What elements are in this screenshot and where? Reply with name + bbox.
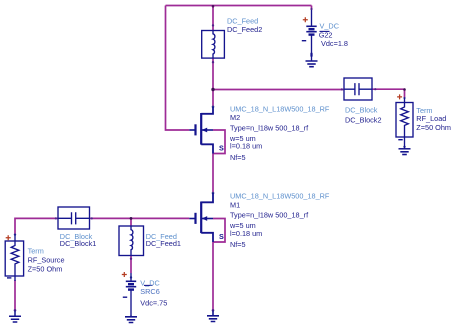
- Term RF_Source bottom pin: [14, 276, 16, 281]
- svg-text:V_DC: V_DC: [320, 22, 339, 31]
- pin dot Term RF_Load top: [403, 97, 405, 99]
- minus sign V_DC G22: [302, 40, 306, 42]
- svg-text:l=0.18 um: l=0.18 um: [230, 142, 262, 151]
- wire top rail: [166, 5, 312, 7]
- Term RF_Load resistor: [401, 103, 409, 138]
- svg-text:DC_Block1: DC_Block1: [60, 239, 97, 248]
- pin dot V_DC G22: [310, 53, 312, 58]
- svg-text:S: S: [219, 144, 224, 153]
- wire drain node to DC_Block2: [213, 89, 344, 91]
- svg-text:Type=n_l18w 500_18_rf: Type=n_l18w 500_18_rf: [230, 211, 309, 220]
- pin dot DC_Block2 right: [374, 88, 376, 90]
- svg-text:DC_Block: DC_Block: [345, 106, 378, 115]
- junction dot top rail: [212, 5, 215, 8]
- pin dot Term RF_Source top: [14, 233, 16, 235]
- Term RF_Load box: [396, 103, 413, 138]
- pin dot DC_Feed2 bottom: [212, 61, 214, 63]
- DC_Feed2 box: [202, 31, 225, 59]
- svg-text:V_DC: V_DC: [140, 278, 159, 287]
- svg-text:Type=n_l18w 500_18_rf: Type=n_l18w 500_18_rf: [230, 123, 309, 132]
- V_DC SRC6 pins: [130, 273, 132, 316]
- V_DC SRC6 tick: [144, 284, 153, 286]
- svg-text:RF_Source: RF_Source: [28, 256, 65, 265]
- svg-text:RF_Load: RF_Load: [416, 114, 446, 123]
- DC_Block2 capacitor: [344, 83, 372, 95]
- svg-text:Vdc=1.8: Vdc=1.8: [321, 39, 348, 48]
- minus sign Term RF_Load: [398, 139, 402, 141]
- wire DC_Block2 to RF_Load: [372, 89, 405, 97]
- ground under V_DC G22: [306, 60, 318, 62]
- DC_Feed2 inductor: [213, 31, 215, 59]
- wire M1 bulk-source loop: [213, 219, 225, 243]
- pin dot M2 drain: [212, 106, 215, 109]
- wire M1 source to ground: [212, 242, 214, 311]
- plus sign V_DC SRC6: [122, 272, 127, 277]
- wire input Term to DC_Block1: [15, 218, 58, 234]
- plus sign Term RF_Source: [6, 235, 11, 240]
- pin dot DC_Block1 left: [55, 217, 57, 219]
- Term RF_Source resistor: [11, 241, 19, 276]
- Term RF_Source box: [5, 241, 23, 276]
- transistor M1: [189, 193, 213, 242]
- DC_Block1 capacitor: [58, 212, 90, 224]
- plus sign Term RF_Load: [397, 94, 402, 99]
- junction corner RF_Load: [403, 88, 406, 91]
- V_DC G22 battery plates: [306, 25, 316, 27]
- svg-text:S: S: [219, 232, 224, 241]
- svg-text:Z=50 Ohm: Z=50 Ohm: [28, 265, 63, 274]
- Term RF_Load top pin: [404, 98, 406, 103]
- pin dot DC_Block1 right: [91, 217, 93, 219]
- V_DC G22 pins: [311, 10, 313, 61]
- wire M2 bulk-source loop: [213, 130, 225, 154]
- wire DC_Feed2 bottom to M2 drain: [212, 58, 214, 107]
- svg-text:Z=50 Ohm: Z=50 Ohm: [416, 123, 451, 132]
- pin dot V_DC G22 top: [310, 8, 312, 10]
- pin dot M1 drain: [212, 192, 215, 195]
- pin dot ground wire Term source: [14, 309, 17, 312]
- DC_Feed1 box: [119, 226, 144, 256]
- wire M2 source to M1 drain: [212, 154, 214, 193]
- DC_Block1 box: [58, 207, 90, 229]
- DC_Block2 box: [344, 78, 372, 100]
- svg-text:DC_Feed1: DC_Feed1: [146, 239, 181, 248]
- wire Term RF_Source bottom: [14, 280, 16, 311]
- transistor M2: [189, 107, 213, 154]
- wire DC_Block1 to M1 gate: [90, 217, 190, 219]
- DC_Feed1 inductor: [131, 226, 133, 256]
- junction dot M1 gate / DC_Feed1: [130, 217, 133, 220]
- pin dot DC_Feed1 bottom: [130, 258, 132, 260]
- svg-text:DC_Block2: DC_Block2: [345, 116, 382, 125]
- wire left riser to M2 gate: [166, 6, 190, 131]
- ground under V_DC SRC6: [125, 316, 137, 323]
- wire DC_Feed1 to V_DC SRC6: [130, 256, 132, 274]
- svg-text:Nf=5: Nf=5: [230, 153, 246, 162]
- Term RF_Load ground pin: [404, 137, 406, 149]
- junction dot drain node: [211, 88, 214, 91]
- wire Vdd rail to DC_Feed2 top: [212, 6, 214, 31]
- svg-text:Term: Term: [28, 247, 44, 256]
- pin dot ground wire M1: [212, 309, 215, 312]
- svg-text:UMC_18_N_L18W500_18_RF: UMC_18_N_L18W500_18_RF: [230, 104, 330, 113]
- plus sign V_DC G22: [303, 17, 308, 22]
- V_DC G22 tick: [320, 30, 330, 32]
- pin dot ground wire V_DC SRC6: [130, 276, 132, 278]
- V_DC SRC6 battery plates: [126, 280, 136, 282]
- Term RF_Source top pin: [14, 234, 16, 241]
- pin dot RF_Load ground: [403, 146, 405, 148]
- svg-text:l=0.18 um: l=0.18 um: [230, 229, 262, 238]
- pin dot DC_Feed2 top: [212, 24, 214, 26]
- svg-text:UMC_18_N_L18W500_18_RF: UMC_18_N_L18W500_18_RF: [230, 191, 330, 200]
- svg-text:SRC6: SRC6: [140, 287, 159, 296]
- svg-text:M2: M2: [230, 113, 240, 122]
- minus sign V_DC SRC6: [123, 296, 127, 298]
- svg-text:DC_Feed2: DC_Feed2: [227, 25, 262, 34]
- svg-text:M1: M1: [230, 200, 240, 209]
- pin dot DC_Block2 left: [341, 88, 343, 90]
- wire DC_Feed1 top riser: [130, 218, 132, 226]
- svg-text:Vdc=.75: Vdc=.75: [140, 298, 167, 307]
- minus sign Term RF_Source: [7, 277, 11, 279]
- ground under Term RF_Source: [9, 311, 21, 323]
- ground under M1 source: [207, 311, 219, 322]
- svg-text:Nf=5: Nf=5: [230, 240, 246, 249]
- wire V_DC G22 top pin: [311, 6, 313, 11]
- ground under Term RF_Load: [399, 148, 411, 150]
